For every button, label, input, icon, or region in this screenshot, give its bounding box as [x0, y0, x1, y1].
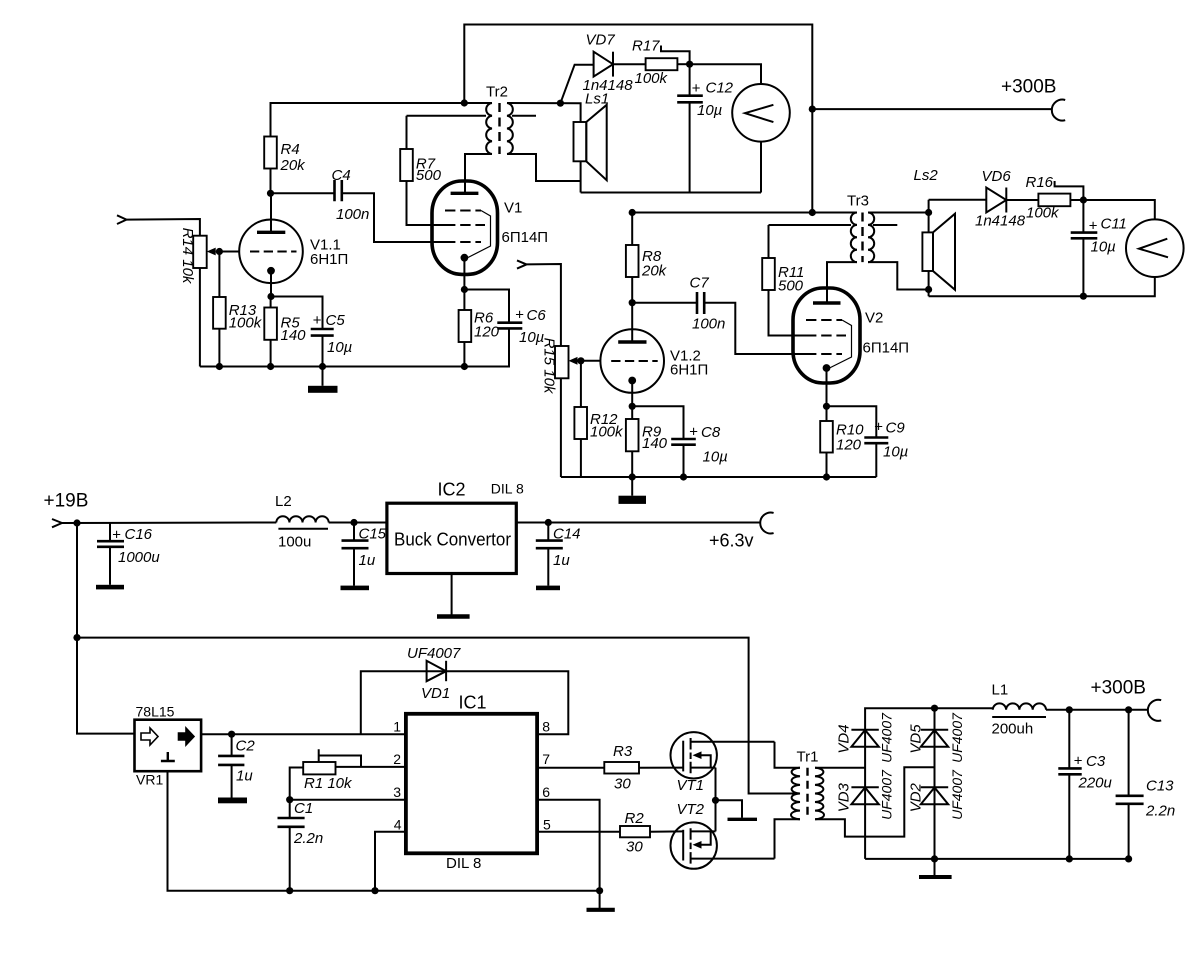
diode VD1 UF4007 — [407, 645, 461, 702]
svg-text:C1: C1 — [294, 800, 313, 817]
wire VT1 drain to Tr1 — [775, 742, 801, 768]
svg-text:VD7: VD7 — [586, 31, 616, 48]
svg-text:V2: V2 — [865, 310, 883, 327]
svg-text:R3: R3 — [613, 743, 633, 760]
inductor L2 100u — [275, 493, 329, 551]
diode VD7 1n4148 — [560, 31, 645, 103]
wire node to C2 — [231, 734, 233, 756]
ground channel 2 — [619, 477, 647, 504]
svg-text:VD5: VD5 — [908, 724, 925, 754]
wire to C16 — [109, 523, 111, 541]
svg-text:C13: C13 — [1146, 778, 1174, 795]
svg-text:1000u: 1000u — [118, 549, 160, 566]
wire Ls2 top to VD6 — [929, 199, 987, 201]
svg-text:100k: 100k — [590, 424, 624, 441]
svg-text:UF4007: UF4007 — [949, 712, 965, 763]
wire R2 to VT2 gate — [650, 830, 683, 832]
wire L1 to +300V — [1046, 709, 1148, 711]
wire pin 7 to R3 — [537, 767, 604, 769]
node C1 bus — [286, 887, 293, 894]
potentiometer R14 10k — [179, 228, 216, 285]
ground C15 — [341, 548, 370, 590]
node C3 — [1066, 706, 1073, 713]
wire R15 wiper to grid node — [578, 360, 601, 362]
svg-text:IC2: IC2 — [438, 480, 466, 500]
wire R1 to IC1 pin 2 — [336, 766, 406, 768]
wire R6 to bus — [463, 342, 465, 367]
svg-text:+: + — [1089, 218, 1098, 235]
svg-text:UF4007: UF4007 — [879, 769, 895, 820]
svg-text:C15: C15 — [359, 526, 387, 543]
wire IN1 to R14 top — [127, 219, 200, 236]
svg-text:C3: C3 — [1086, 753, 1106, 770]
wire node to R9 — [631, 406, 633, 419]
svg-text:1u: 1u — [359, 552, 376, 569]
svg-text:78L15: 78L15 — [136, 704, 175, 720]
wire C8 to bus — [683, 445, 685, 477]
svg-text:R2: R2 — [625, 810, 645, 827]
node rail +300V vertical — [809, 209, 816, 216]
transformer Tr1 — [791, 749, 824, 820]
ground C2 — [218, 765, 247, 803]
wire C9 to bus — [875, 443, 877, 477]
ground C16 — [96, 547, 124, 590]
wire C3 to bottom — [1068, 774, 1070, 859]
wire Tr2 primary bottom to V1 anode — [465, 154, 492, 193]
svg-text:Ls2: Ls2 — [914, 167, 939, 184]
svg-text:120: 120 — [474, 324, 500, 341]
inductor L1 200uh — [992, 682, 1047, 738]
wire Tr2 secondary top to Ls1 — [507, 103, 581, 193]
resistor R10 120 — [820, 421, 864, 454]
svg-text:UF4007: UF4007 — [407, 645, 461, 662]
wire C7 to V2 grid — [704, 303, 806, 354]
svg-text:C11: C11 — [1101, 216, 1127, 233]
svg-text:140: 140 — [642, 435, 668, 452]
wire pin 4 — [375, 832, 406, 891]
transformer Tr3 — [847, 193, 897, 263]
wire cathode node to C9 — [827, 406, 877, 437]
speaker Ls2 — [914, 167, 956, 290]
svg-text:10µ: 10µ — [883, 444, 908, 461]
svg-text:C12: C12 — [706, 80, 734, 97]
svg-text:R1 10k: R1 10k — [304, 775, 353, 792]
diode VD3 UF4007 — [836, 769, 895, 820]
svg-text:VD1: VD1 — [421, 685, 450, 702]
wire rectifier top to L1 — [935, 707, 993, 709]
svg-text:R14 10k: R14 10k — [179, 228, 196, 285]
wire VT1 source to node — [715, 768, 717, 832]
svg-text:1n4148: 1n4148 — [975, 213, 1026, 230]
wire node to C15 — [353, 523, 355, 541]
wire R8 to anode node — [631, 277, 633, 303]
svg-text:100n: 100n — [336, 206, 369, 223]
transformer Tr2 — [464, 84, 536, 155]
svg-text:C8: C8 — [701, 424, 721, 441]
node Tr2 primary top — [461, 99, 468, 106]
input connector IN2 — [517, 260, 527, 268]
svg-text:500: 500 — [778, 278, 804, 295]
capacitor C4 100n — [332, 167, 370, 223]
meter M2 — [1126, 219, 1184, 277]
node Ls1 top — [557, 100, 564, 107]
resistor R13 100k — [213, 297, 263, 332]
svg-text:Buck Convertor: Buck Convertor — [394, 530, 511, 550]
node C11 bottom — [1080, 293, 1087, 300]
wire node to C4 — [271, 192, 335, 194]
wire top rail loop — [464, 25, 812, 213]
svg-text:+: + — [692, 80, 701, 97]
node cathode V2 — [823, 403, 830, 410]
transistor VT2 — [671, 801, 775, 869]
wire L2 to IC2 — [329, 522, 387, 524]
wire R5 to bus — [270, 340, 272, 367]
wire pin 5 to R2 — [537, 831, 620, 833]
wire VD1 bypass loop — [361, 671, 569, 734]
svg-text:C9: C9 — [886, 420, 906, 437]
svg-text:VT1: VT1 — [677, 777, 705, 794]
wire cathode node to C6 — [464, 290, 509, 323]
svg-text:VR1: VR1 — [136, 772, 163, 788]
diode VD6 1n4148 — [975, 168, 1038, 230]
svg-text:10µ: 10µ — [1091, 239, 1116, 256]
wire R16 to node — [1070, 199, 1083, 201]
svg-text:7: 7 — [542, 751, 550, 767]
wire IC2 to +6.3v — [516, 522, 760, 524]
svg-text:IC1: IC1 — [459, 693, 487, 713]
node Ls2 bottom — [925, 286, 932, 293]
svg-text:6: 6 — [542, 784, 550, 800]
wire pin 3 — [290, 799, 406, 801]
resistor R16 100k — [1026, 174, 1084, 222]
wire pin 6 to ground bus — [537, 800, 600, 891]
ground sources — [716, 800, 758, 819]
node C15 — [350, 519, 357, 526]
connector +6.3v — [760, 513, 773, 534]
wire IN2 to R15 top — [527, 264, 561, 346]
capacitor C12 10u — [677, 80, 733, 120]
capacitor C1 2.2n — [278, 800, 324, 847]
wire rectifier bottom rail — [865, 858, 1129, 860]
wire Tr1 secondary bottom to VD5 VD2 — [815, 767, 935, 836]
wire Tr1 secondary top to VD4 VD3 — [815, 767, 865, 769]
svg-text:20k: 20k — [641, 263, 668, 280]
wire R8 top rail — [632, 213, 857, 246]
wire C13 to bottom — [1128, 804, 1130, 859]
svg-text:5: 5 — [543, 817, 551, 833]
wire grid node to R13 — [218, 252, 220, 298]
wire V2 cathode to node — [826, 368, 828, 406]
node anode V1.1 — [267, 190, 274, 197]
node rectifier bottom — [931, 855, 938, 862]
regulator VR1 78L15 — [135, 704, 202, 788]
node C16 — [73, 519, 80, 526]
capacitor C16 1000u — [97, 526, 160, 566]
speaker Ls1 — [574, 91, 610, 181]
node C14 — [545, 519, 552, 526]
wire R1 left to pin 3 net — [290, 768, 304, 800]
wire +19V to L2 — [62, 522, 276, 525]
svg-text:1u: 1u — [553, 552, 570, 569]
wire loop to Tr1 center tap — [77, 638, 800, 794]
ground IC2 — [437, 574, 470, 617]
node R16 C11 — [1080, 196, 1087, 203]
wire R9 to bus — [631, 451, 633, 477]
wire Ls2 vertical — [928, 200, 930, 296]
capacitor C14 1u — [536, 526, 581, 570]
svg-text:R4: R4 — [281, 141, 300, 158]
capacitor C5 10u — [311, 312, 353, 356]
wire cathode node to C8 — [632, 406, 683, 439]
svg-text:VD4: VD4 — [836, 724, 853, 753]
wire node to R5 — [270, 297, 272, 308]
ground C14 — [536, 548, 560, 590]
wire Tr3 secondary bottom to Ls2 — [868, 262, 929, 289]
svg-text:C14: C14 — [553, 526, 581, 543]
wire R17 to node — [677, 63, 689, 65]
connector +300V top — [1052, 100, 1065, 121]
ground rectifier — [919, 859, 952, 877]
svg-text:C6: C6 — [527, 307, 547, 324]
wire R4 to anode node — [270, 169, 272, 194]
resistor R3 30 — [604, 743, 639, 793]
wire node to C14 — [547, 523, 549, 541]
node cathode V1.1 — [267, 293, 274, 300]
wire R3 to VT1 gate — [639, 767, 683, 769]
node cathode V1.2 — [629, 403, 636, 410]
wire node to C11 — [1082, 200, 1084, 233]
node main ground — [596, 887, 603, 894]
capacitor C15 1u — [342, 526, 387, 570]
wire V1.1 anode lead — [270, 193, 272, 232]
diode VD5 UF4007 — [908, 712, 966, 763]
triode V1.1 6N1P — [239, 220, 348, 284]
wire R14 bottom to bus — [199, 268, 201, 367]
wire VR1 ground pin to bus — [168, 771, 600, 891]
node C2 — [228, 731, 235, 738]
node sources — [712, 797, 719, 804]
svg-text:20k: 20k — [280, 157, 307, 174]
pentode V1 6P14P — [432, 181, 548, 274]
wire V1.1 cathode to node — [270, 271, 272, 297]
wire R14 wiper to grid node — [216, 251, 240, 253]
wire R7 to V1 screen grid — [407, 181, 446, 225]
meter M1 — [732, 84, 790, 142]
wire node to meter M1 — [690, 64, 761, 84]
rectifier left chain vertical — [865, 708, 934, 859]
input connector IN1 — [117, 215, 127, 224]
diode VD4 UF4007 — [836, 712, 895, 763]
wire M1 to bottom rail — [760, 142, 762, 193]
svg-text:120: 120 — [836, 437, 862, 454]
wire cathode node to C5 — [271, 297, 323, 330]
wire R4 top rail — [271, 103, 465, 137]
svg-text:+: + — [515, 307, 524, 324]
wire VR1 out to IC1 pin 1 — [201, 733, 406, 735]
svg-text:V1: V1 — [504, 200, 522, 217]
svg-text:6Н1П: 6Н1П — [670, 362, 708, 379]
transistor VT1 — [671, 732, 775, 794]
wire R15 bottom to bus — [560, 378, 562, 477]
svg-text:R15 10k: R15 10k — [541, 338, 558, 395]
svg-text:140: 140 — [281, 327, 307, 344]
svg-text:C5: C5 — [326, 312, 346, 329]
svg-text:2.2n: 2.2n — [1145, 803, 1175, 820]
svg-text:Tr3: Tr3 — [847, 193, 869, 210]
svg-text:DIL 8: DIL 8 — [446, 855, 481, 872]
node C13 — [1125, 706, 1132, 713]
svg-text:10µ: 10µ — [697, 102, 722, 119]
svg-text:C7: C7 — [690, 275, 710, 292]
svg-text:100k: 100k — [1026, 205, 1060, 222]
resistor R4 20k — [264, 137, 306, 174]
node cathode V1 — [461, 286, 468, 293]
svg-text:10µ: 10µ — [703, 449, 728, 466]
resistor R9 140 — [626, 419, 668, 452]
svg-text:100k: 100k — [635, 70, 669, 87]
wire +19V down to VR1 — [77, 523, 135, 734]
wire output bottom rail ch1 — [581, 192, 761, 194]
wire R11 to V2 screen grid — [769, 290, 807, 336]
svg-text:+6.3v: +6.3v — [709, 531, 754, 551]
wire R13 to bus — [218, 329, 220, 367]
wire R12 to bus — [580, 439, 582, 477]
input connector +19V — [52, 519, 62, 527]
resistor R2 30 — [620, 810, 650, 856]
wire V1 cathode to node — [463, 258, 465, 290]
svg-text:VT2: VT2 — [677, 801, 705, 818]
capacitor C3 220u — [1058, 753, 1112, 792]
resistor R17 100k — [632, 38, 690, 88]
svg-text:30: 30 — [614, 776, 631, 793]
svg-text:500: 500 — [416, 167, 442, 184]
ground main — [587, 891, 615, 910]
resistor R11 500 — [762, 225, 851, 295]
svg-text:+: + — [112, 527, 121, 544]
svg-text:2: 2 — [393, 751, 401, 767]
wire node to C7 — [632, 302, 697, 304]
capacitor C8 10u — [671, 424, 728, 466]
wire M2 to bottom rail — [929, 277, 1155, 296]
IC2 buck converter — [387, 480, 524, 574]
node pin4 bus — [371, 887, 378, 894]
wire C12 to bottom rail — [689, 102, 691, 192]
capacitor C2 1u — [218, 738, 255, 785]
svg-text:+19В: +19В — [44, 491, 89, 512]
wire V1.2 anode lead — [631, 303, 633, 342]
svg-text:200uh: 200uh — [992, 721, 1034, 738]
wire R10 to bus — [826, 453, 828, 478]
svg-text:+300В: +300В — [1001, 77, 1056, 98]
svg-text:R17: R17 — [632, 38, 660, 55]
svg-text:4: 4 — [394, 817, 402, 833]
wire node to C12 — [689, 64, 691, 96]
svg-text:C2: C2 — [236, 738, 256, 755]
node R8 rail — [629, 209, 636, 216]
node +300V tee — [809, 106, 816, 113]
svg-text:8: 8 — [542, 719, 550, 735]
resistor R12 100k — [574, 407, 624, 441]
svg-text:100k: 100k — [229, 315, 263, 332]
svg-text:Tr1: Tr1 — [797, 749, 819, 766]
wire C11 to bottom rail — [1082, 238, 1084, 296]
svg-text:UF4007: UF4007 — [879, 712, 895, 763]
wire Tr3 primary bottom to V2 anode — [827, 262, 857, 303]
svg-text:+: + — [313, 312, 322, 329]
svg-text:DIL 8: DIL 8 — [491, 481, 524, 497]
svg-text:220u: 220u — [1078, 775, 1113, 792]
node R17 C12 — [686, 61, 693, 68]
wire VT2 drain to Tr1 — [775, 819, 801, 858]
svg-text:6Н1П: 6Н1П — [310, 251, 348, 268]
svg-text:1u: 1u — [236, 768, 253, 785]
wire node to R6 — [463, 290, 465, 311]
svg-text:UF4007: UF4007 — [949, 769, 965, 820]
svg-text:L1: L1 — [992, 682, 1009, 699]
node grid V1.2 — [577, 357, 584, 364]
wire node to meter M2 — [1083, 200, 1154, 220]
wire Tr2 secondary bottom to Ls1 — [507, 154, 581, 181]
node rectifier top — [931, 705, 938, 712]
triode V1.2 6N1P — [600, 329, 708, 393]
wire V1.2 cathode to node — [631, 381, 633, 407]
resistor R8 20k — [626, 245, 668, 280]
node anode V1.2 — [629, 299, 636, 306]
wire C6 to bus — [508, 328, 510, 366]
svg-text:6П14П: 6П14П — [863, 340, 910, 357]
capacitor C11 10u — [1071, 216, 1127, 256]
svg-text:VD3: VD3 — [836, 782, 853, 812]
connector +300V bottom — [1148, 700, 1161, 721]
wire C1 to bus — [289, 827, 291, 891]
resistor R7 500 — [400, 116, 486, 184]
wire bus channel 1 — [200, 366, 510, 368]
resistor R6 120 — [459, 310, 500, 343]
wire C5 to bus — [322, 336, 324, 367]
svg-text:6П14П: 6П14П — [502, 229, 549, 246]
wire bus channel 2 — [561, 476, 876, 478]
svg-text:3: 3 — [393, 784, 401, 800]
svg-text:C4: C4 — [332, 167, 351, 184]
capacitor C9 10u — [864, 419, 908, 461]
node C1 pin3 — [286, 796, 293, 803]
svg-text:100n: 100n — [692, 316, 725, 333]
svg-text:2.2n: 2.2n — [293, 830, 323, 847]
potentiometer R15 10k — [541, 338, 578, 395]
rectifier right chain vertical — [934, 708, 936, 859]
svg-text:R16: R16 — [1026, 174, 1054, 191]
capacitor C6 10u — [497, 307, 546, 346]
resistor R5 140 — [264, 308, 306, 345]
ground channel 1 — [308, 367, 338, 393]
pentode V2 6P14P — [793, 288, 909, 383]
node loop tee — [73, 634, 80, 641]
wire grid node to R12 — [580, 361, 582, 407]
svg-text:+: + — [874, 419, 883, 436]
capacitor C7 100n — [690, 275, 726, 333]
capacitor C13 2.2n — [1116, 778, 1176, 820]
svg-text:30: 30 — [626, 839, 643, 856]
wire Tr3 secondary top to Ls2 — [868, 212, 929, 214]
node Ls2 top — [925, 209, 932, 216]
svg-text:1: 1 — [393, 719, 401, 735]
wire +300V — [812, 108, 1052, 110]
wire C13 — [1128, 710, 1130, 796]
IC1 box — [393, 693, 551, 873]
svg-text:+: + — [689, 424, 698, 441]
node grid V1.1 — [216, 248, 223, 255]
trimmer R1 10k — [303, 749, 361, 792]
